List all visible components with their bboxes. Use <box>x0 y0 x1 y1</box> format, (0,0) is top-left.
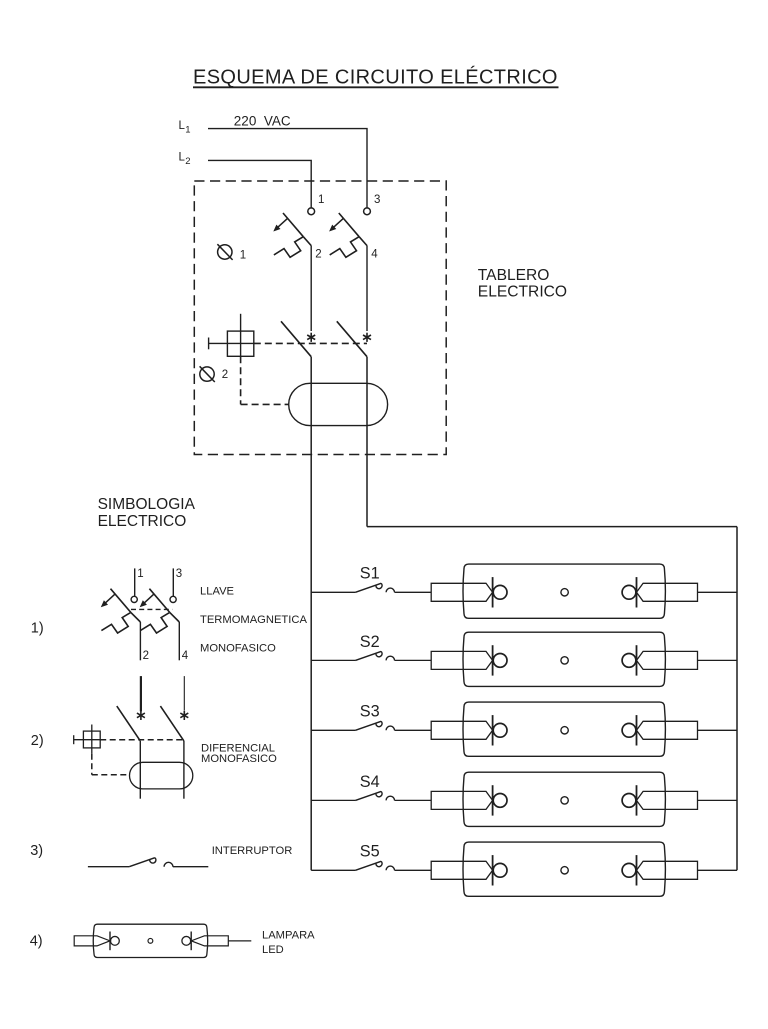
svg-text:ESQUEMA DE CIRCUITO ELÉCTRICO: ESQUEMA DE CIRCUITO ELÉCTRICO <box>193 66 558 89</box>
wire lamp E1 to right bus <box>698 591 737 593</box>
E4 lamp right pin cap <box>637 791 698 809</box>
sym interruptor contact bump <box>164 862 173 866</box>
svg-text:3: 3 <box>176 568 182 580</box>
E1 lamp body <box>463 564 665 618</box>
E5 lamp right electrode circle <box>622 863 636 877</box>
svg-text:LED: LED <box>262 944 284 956</box>
sym lamp center dot <box>148 938 153 943</box>
wire lamp E3 to right bus <box>698 729 737 731</box>
switch S4 blade <box>355 791 382 800</box>
label SIMBOLOGIA ELECTRICO <box>98 496 196 530</box>
sym breaker pole B top wire <box>172 568 174 596</box>
sym diff asterisk A <box>137 711 145 720</box>
svg-text:1: 1 <box>185 125 190 136</box>
sym lamp left pin cap <box>74 936 110 946</box>
wire lamp E5 to right bus <box>698 869 737 871</box>
E2 lamp left electrode bar <box>492 645 494 675</box>
sym dashed link to blades <box>100 739 184 741</box>
wire switch S5 to lamp <box>395 869 432 871</box>
switch S5 contact bump <box>386 866 394 870</box>
E3 lamp body <box>463 702 665 756</box>
sym interruptor blade <box>129 858 156 867</box>
switch S4 feed wire <box>311 799 355 801</box>
test button horizontal axis <box>209 342 254 344</box>
E3 lamp right pin cap <box>637 721 698 739</box>
svg-text:2: 2 <box>222 369 228 381</box>
sym lamp right lead wire <box>228 940 251 942</box>
E3 lamp left electrode bar <box>492 715 494 745</box>
E1 lamp left electrode circle <box>493 585 507 599</box>
sym breaker pole A lower wire <box>139 622 141 660</box>
terminal 3 circle <box>364 208 371 215</box>
E5 lamp center dot <box>561 867 568 874</box>
sym breaker pole B lower wire <box>178 622 180 660</box>
E2 lamp left electrode circle <box>493 654 507 668</box>
sym diff left supply line <box>140 676 142 711</box>
svg-text:3): 3) <box>30 843 43 859</box>
switch S4 contact bump <box>386 796 394 800</box>
switch S2 blade <box>355 651 382 660</box>
sym test button square <box>83 731 100 748</box>
switch S1 contact bump <box>386 588 394 592</box>
sym diff pole A lower wire <box>139 741 141 799</box>
sym breaker pole B <box>140 589 180 633</box>
tablero electrico dashed enclosure <box>194 181 446 455</box>
wire pole B down <box>366 357 368 527</box>
E5 lamp left electrode circle <box>493 863 507 877</box>
differential relay oval <box>289 383 388 425</box>
svg-text:S4: S4 <box>360 773 380 791</box>
svg-text:MONOFASICO: MONOFASICO <box>201 753 277 765</box>
svg-text:1: 1 <box>240 249 246 261</box>
switch S5 blade <box>355 861 382 870</box>
wire lamp E2 to right bus <box>698 659 737 661</box>
sym diff pole B lower wire <box>183 741 185 799</box>
sym test button horizontal axis <box>74 739 101 741</box>
label L2 <box>179 151 191 167</box>
svg-text:1): 1) <box>31 621 44 637</box>
E3 lamp left pin cap <box>431 721 492 739</box>
test button vertical axis <box>240 314 242 357</box>
sym lamp left electrode circle <box>111 936 120 945</box>
E2 lamp left pin cap <box>431 651 492 669</box>
sym breaker pole A terminal circle <box>131 596 137 602</box>
E1 lamp left pin cap <box>431 583 492 601</box>
sym differential relay oval <box>130 762 193 789</box>
svg-text:TERMOMAGNETICA: TERMOMAGNETICA <box>200 614 307 626</box>
sym lamp right electrode bar <box>190 932 192 951</box>
sym dashed link to coil <box>92 774 130 776</box>
svg-text:2): 2) <box>31 733 44 749</box>
svg-text:ELECTRICO: ELECTRICO <box>478 284 567 301</box>
svg-text:LAMPARA: LAMPARA <box>262 930 315 942</box>
wire lamp E4 to right bus <box>698 799 737 801</box>
E5 lamp right electrode bar <box>636 855 638 885</box>
sym breaker pole A top wire <box>134 568 136 596</box>
svg-text:4: 4 <box>371 249 378 261</box>
E1 lamp right electrode bar <box>636 577 638 607</box>
svg-text:S3: S3 <box>360 703 380 721</box>
E4 lamp right electrode circle <box>622 794 636 808</box>
E2 lamp body <box>463 632 665 686</box>
E2 lamp right electrode circle <box>622 654 636 668</box>
switch S2 contact bump <box>386 656 394 660</box>
wire left bus <box>310 357 312 871</box>
svg-text:S2: S2 <box>360 633 380 651</box>
svg-text:TABLERO: TABLERO <box>478 267 550 284</box>
svg-text:LLAVE: LLAVE <box>200 585 234 597</box>
E1 lamp left electrode bar <box>492 577 494 607</box>
E1 lamp center dot <box>561 589 568 596</box>
sym interruptor right wire <box>173 866 208 868</box>
E3 lamp center dot <box>561 727 568 734</box>
svg-text:SIMBOLOGIA: SIMBOLOGIA <box>98 496 196 513</box>
wire breaker pole A output <box>310 246 312 331</box>
wire return top horizontal <box>367 526 737 528</box>
E3 lamp right electrode bar <box>636 715 638 745</box>
dashed link to relay coil <box>241 403 289 405</box>
sym breaker pole A <box>101 589 141 633</box>
E2 lamp center dot <box>561 657 568 664</box>
switch S3 contact bump <box>386 726 394 730</box>
E5 lamp left pin cap <box>431 861 492 879</box>
E1 lamp right pin cap <box>637 583 698 601</box>
sym lamp right pin cap <box>191 936 228 946</box>
E5 lamp left electrode bar <box>492 855 494 885</box>
label DIFERENCIAL MONOFASICO <box>201 743 277 766</box>
switch S1 feed wire <box>311 591 355 593</box>
wire switch S4 to lamp <box>395 799 432 801</box>
terminal 1 circle <box>308 208 315 215</box>
differential asterisk pole A <box>307 333 315 342</box>
wire switch S2 to lamp <box>395 659 432 661</box>
switch S3 blade <box>355 721 382 730</box>
E4 lamp left pin cap <box>431 791 492 809</box>
E2 lamp right pin cap <box>637 651 698 669</box>
sym diff blade A <box>117 706 141 741</box>
switch S5 feed wire <box>311 869 355 871</box>
svg-text:2: 2 <box>315 249 321 261</box>
differential asterisk pole B <box>363 333 371 342</box>
sym diff blade B <box>160 706 184 741</box>
sym test button vertical axis <box>91 725 93 754</box>
sym lamp right electrode circle <box>182 936 191 945</box>
indicator lamp 2 symbol <box>200 366 215 382</box>
svg-text:S5: S5 <box>360 843 380 861</box>
E4 lamp left electrode bar <box>492 785 494 815</box>
E5 lamp right pin cap <box>637 861 698 879</box>
sym diff right supply line <box>183 676 185 710</box>
test button square <box>227 331 253 356</box>
sym lamp body <box>93 924 207 957</box>
label L1 <box>179 120 191 136</box>
label TABLERO ELECTRICO <box>478 267 567 301</box>
svg-text:4: 4 <box>182 650 189 662</box>
dashed link test button to poles <box>254 342 367 344</box>
svg-text:S1: S1 <box>360 565 380 583</box>
svg-text:3: 3 <box>374 194 380 206</box>
svg-text:4): 4) <box>30 934 43 950</box>
sym breaker pole B terminal circle <box>170 596 176 602</box>
test button left tick <box>208 338 210 350</box>
sym lamp left electrode bar <box>109 932 111 951</box>
E2 lamp right electrode bar <box>636 645 638 675</box>
differential blade pole A <box>281 321 311 356</box>
switch S1 blade <box>355 583 382 592</box>
switch S3 feed wire <box>311 729 355 731</box>
wire switch S3 to lamp <box>395 729 432 731</box>
dashed link test button down <box>240 356 242 404</box>
label LAMPARA LED <box>262 930 315 956</box>
E5 lamp body <box>463 842 665 896</box>
sym dashed link down <box>91 754 93 775</box>
svg-text:1: 1 <box>318 194 324 206</box>
title underline <box>193 86 559 88</box>
switch S2 feed wire <box>311 659 355 661</box>
sym interruptor left wire <box>88 866 129 868</box>
svg-text:MONOFASICO: MONOFASICO <box>200 643 276 655</box>
sym breaker mechanical tie dashed <box>131 608 172 610</box>
svg-text:1: 1 <box>137 568 143 580</box>
wire L1 <box>208 129 367 208</box>
differential blade pole B <box>337 321 367 356</box>
E4 lamp center dot <box>561 797 568 804</box>
sym test button left tick <box>73 735 75 744</box>
E3 lamp right electrode circle <box>622 723 636 737</box>
breaker Q1 pole 3-4 <box>329 213 367 257</box>
svg-text:2: 2 <box>143 650 149 662</box>
breaker Q1 pole 1-2 <box>273 213 311 257</box>
E4 lamp left electrode circle <box>493 794 507 808</box>
svg-text:ELECTRICO: ELECTRICO <box>98 513 187 530</box>
svg-text:INTERRUPTOR: INTERRUPTOR <box>212 845 293 857</box>
indicator lamp 1 symbol <box>217 244 232 260</box>
E4 lamp body <box>463 772 665 826</box>
wire L2 <box>208 160 311 208</box>
svg-text:2: 2 <box>185 156 190 167</box>
wire breaker pole B output <box>366 246 368 331</box>
E4 lamp right electrode bar <box>636 785 638 815</box>
svg-text:220 VAC: 220 VAC <box>234 114 291 129</box>
E3 lamp left electrode circle <box>493 723 507 737</box>
wire right bus <box>736 527 738 871</box>
E1 lamp right electrode circle <box>622 585 636 599</box>
sym diff asterisk B <box>180 711 188 720</box>
wire switch S1 to lamp <box>395 591 432 593</box>
